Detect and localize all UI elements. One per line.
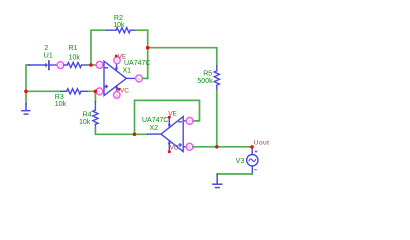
svg-text:VE: VE	[168, 111, 177, 118]
battery U1 lead left	[29, 64, 46, 66]
svg-text:10k: 10k	[55, 101, 67, 108]
ground V3	[213, 174, 222, 188]
op-amp X2	[148, 117, 184, 152]
svg-text:X2: X2	[150, 125, 159, 132]
svg-text:10k: 10k	[69, 55, 81, 62]
node junction feedback/R5	[146, 46, 150, 50]
wire R4 bottom to X2 output junction	[95, 128, 134, 135]
wire R1 to pin2	[89, 64, 97, 66]
svg-text:R4: R4	[83, 111, 92, 118]
node VC X1	[118, 88, 121, 91]
svg-text:R5: R5	[203, 71, 212, 78]
svg-text:0: 0	[59, 63, 62, 69]
svg-text:1: 1	[98, 89, 101, 95]
source V3	[247, 147, 258, 174]
wire capacitor row	[26, 64, 29, 66]
wire X2 edge to pin7	[183, 120, 186, 122]
pin 6	[186, 143, 193, 150]
wire R2 right corner down to output	[136, 30, 147, 78]
node VE X2	[168, 116, 171, 119]
wire X2 edge to pin6	[183, 146, 186, 148]
op-amp X1	[104, 61, 136, 95]
node junction pin1/R4	[94, 90, 98, 94]
pin 2	[96, 61, 103, 68]
svg-text:UA747C: UA747C	[142, 117, 168, 124]
pin 3	[114, 57, 120, 64]
node Uout	[250, 145, 254, 149]
pin 1	[96, 88, 103, 95]
wire pin6 to Uout	[193, 146, 252, 148]
svg-text:V3: V3	[236, 158, 245, 165]
node junction R1/feedback	[89, 63, 93, 67]
wire X2 output	[135, 133, 148, 135]
resistor R4	[93, 102, 98, 128]
wire X2 feedback rectangle	[135, 100, 200, 134]
svg-text:VC: VC	[120, 88, 129, 95]
node junction R5/output row	[215, 145, 219, 149]
node VE X1	[115, 55, 118, 58]
node junction left rail	[24, 90, 28, 94]
wire feedback up left	[91, 30, 107, 65]
ground left	[22, 104, 30, 115]
svg-text:4: 4	[138, 76, 141, 82]
svg-text:7: 7	[188, 119, 191, 125]
pin 5	[114, 92, 120, 99]
svg-text:2: 2	[98, 63, 101, 69]
svg-text:Uout: Uout	[254, 140, 270, 147]
pin 0	[57, 62, 64, 69]
wire R3 row	[26, 90, 61, 92]
wire to R5 top	[148, 48, 217, 66]
svg-text:U1: U1	[44, 53, 53, 60]
pin 7	[186, 117, 193, 124]
svg-text:X1: X1	[123, 68, 132, 75]
wire R5 bottom to output row	[216, 91, 218, 147]
resistor R3	[61, 89, 89, 94]
wire input row left corner to battery	[25, 65, 27, 104]
svg-text:500k: 500k	[197, 78, 213, 85]
resistor R5	[214, 66, 219, 91]
node VC X2	[168, 150, 171, 153]
node junction X2 output	[133, 133, 137, 137]
wire down to R4	[94, 91, 96, 101]
svg-text:10k: 10k	[79, 119, 91, 126]
svg-text:10k: 10k	[113, 22, 125, 29]
svg-text:6: 6	[188, 145, 191, 151]
resistor R2	[107, 28, 136, 33]
resistor R1	[64, 62, 89, 67]
wire pin4 to feedback vertical	[142, 77, 147, 79]
wire R3 to pin1	[89, 90, 96, 92]
battery U1 lead right	[50, 64, 57, 66]
svg-text:VC: VC	[170, 145, 179, 152]
battery U1	[46, 61, 49, 69]
pin 4	[136, 75, 143, 82]
svg-text:UA747C: UA747C	[124, 60, 150, 67]
svg-text:5: 5	[115, 93, 118, 99]
wire V3 bottom to ground	[217, 173, 252, 175]
svg-text:R1: R1	[69, 45, 78, 52]
svg-text:2: 2	[44, 45, 48, 52]
